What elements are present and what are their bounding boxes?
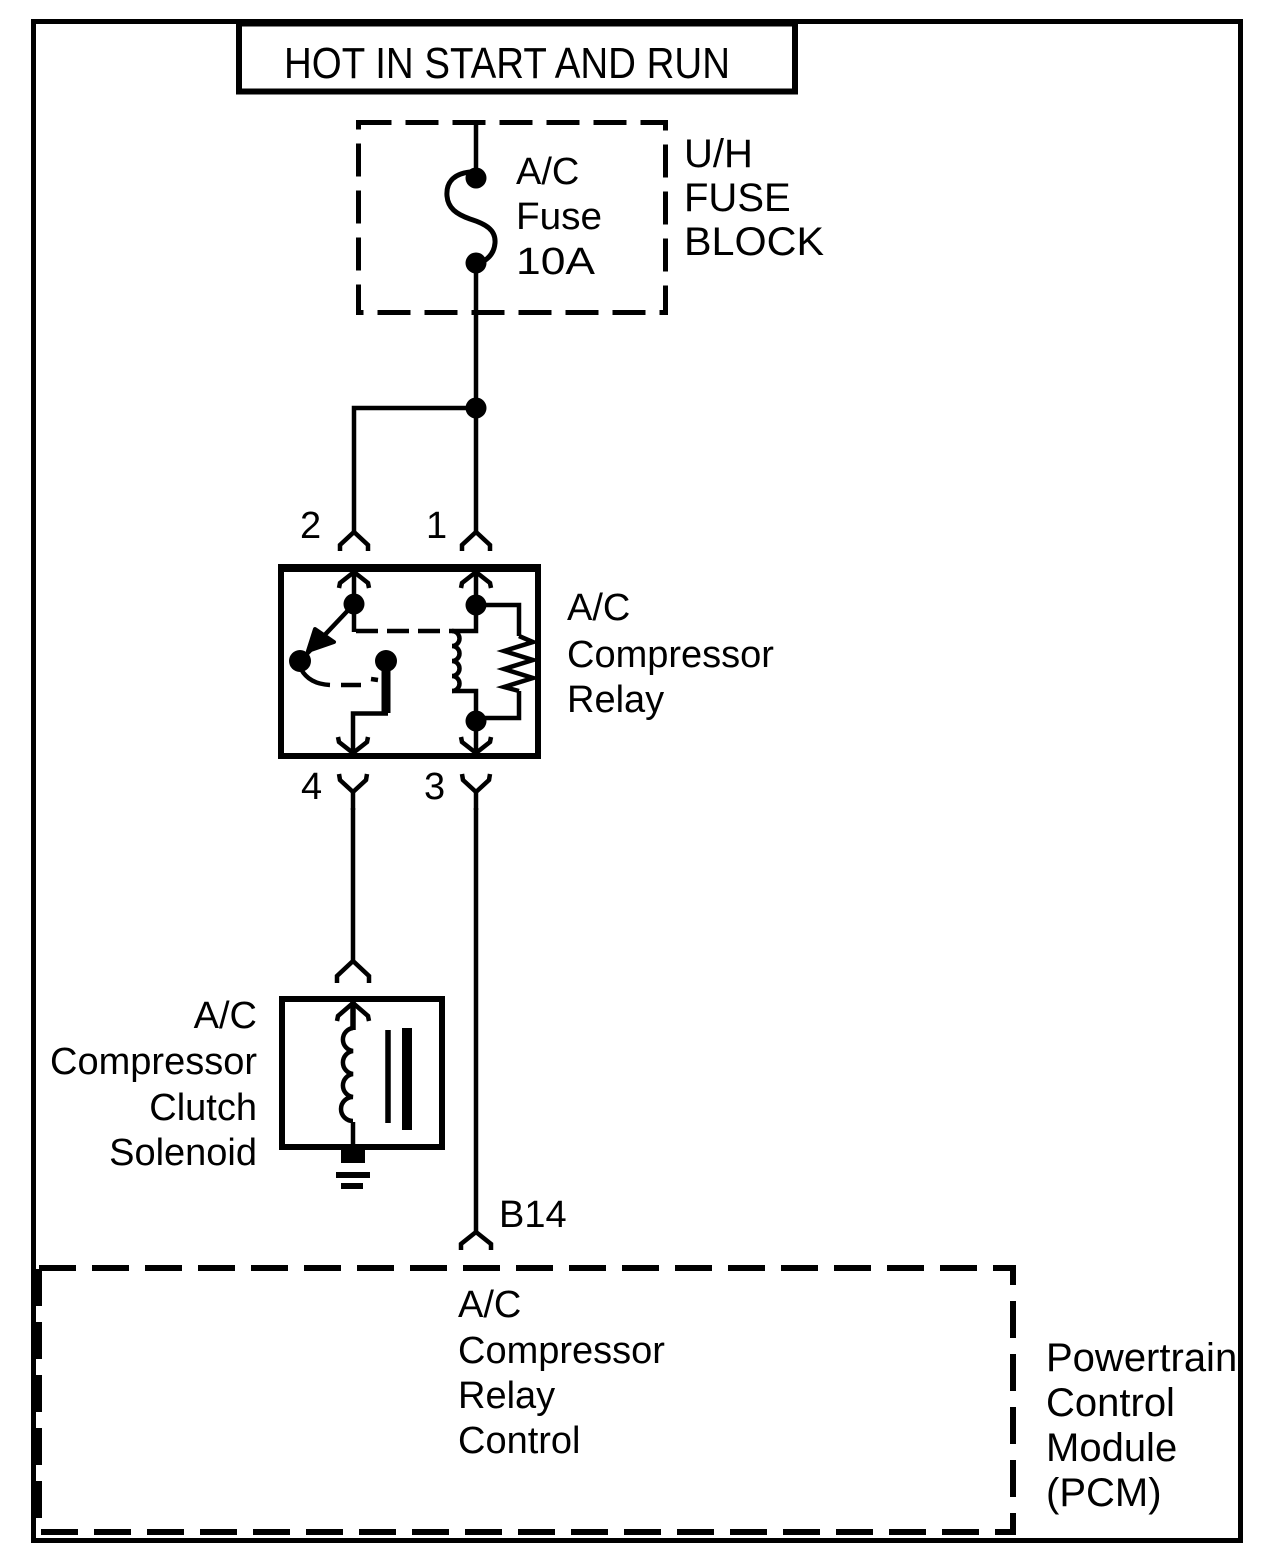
svg-text:Control: Control [458, 1420, 581, 1462]
wire: pin 4 down to solenoid connector [351, 808, 356, 960]
relay coil resistor (parallel) [484, 605, 533, 718]
svg-text:Compressor: Compressor [458, 1330, 665, 1372]
pin label 2 [300, 505, 321, 547]
U/H fuse block (dashed box) [359, 123, 666, 313]
clutch plates [388, 1028, 407, 1130]
connector pin 3 (female half, Y) [462, 774, 490, 810]
label U/H FUSE BLOCK [684, 132, 824, 264]
label Powertrain Control Module (PCM) [1046, 1336, 1237, 1515]
wire: NO contact to pin 4 [353, 714, 388, 754]
switch common node [344, 594, 365, 615]
power label box HOT IN START AND RUN [239, 24, 795, 92]
wire: branch to pin 2 [354, 408, 476, 531]
svg-text:Relay: Relay [458, 1375, 555, 1417]
relay coil node bottom [466, 711, 487, 732]
solenoid coil (inductor) [341, 1028, 353, 1147]
pin label 3 [424, 766, 445, 808]
svg-text:4: 4 [301, 766, 322, 808]
svg-text:Powertrain: Powertrain [1046, 1336, 1237, 1380]
connector pin 4 (female half, Y) [339, 774, 367, 810]
label A/C Fuse 10A [516, 151, 602, 283]
svg-text:A/C: A/C [567, 587, 630, 629]
wire: feed into fuse [474, 122, 479, 170]
relay pin 1 terminal arrow (male half) [461, 572, 491, 588]
svg-text:Control: Control [1046, 1381, 1175, 1425]
relay coil node top [466, 595, 487, 616]
switch NC node [289, 650, 311, 672]
label B14 [499, 1194, 567, 1236]
relay coil (inductor) [452, 609, 476, 713]
svg-text:A/C: A/C [194, 995, 257, 1037]
svg-text:A/C: A/C [516, 151, 579, 193]
connector at solenoid (male half, up) [337, 961, 369, 983]
relay pin 4 terminal arrow (male half, down) [338, 737, 368, 753]
junction node [466, 398, 487, 419]
relay pin 2 terminal arrow (male half) [339, 572, 369, 588]
connector B14 (female half) [461, 1232, 491, 1250]
svg-text:Compressor: Compressor [50, 1041, 257, 1083]
svg-text:HOT IN START AND RUN: HOT IN START AND RUN [284, 39, 730, 88]
ground symbol [336, 1175, 370, 1186]
relay box [278, 568, 541, 757]
solenoid terminal arrow (male half) [337, 1003, 369, 1021]
svg-text:Clutch: Clutch [149, 1087, 257, 1129]
connector pin 2 (female half) [340, 532, 368, 551]
svg-text:10A: 10A [516, 241, 596, 283]
svg-text:1: 1 [426, 505, 447, 547]
svg-text:(PCM): (PCM) [1046, 1471, 1162, 1515]
switch arm with arrowhead [302, 604, 354, 659]
switch travel arc (dashed) [301, 669, 378, 685]
relay pin 1 wire [474, 571, 479, 596]
wire: fuse to junction [474, 273, 479, 408]
svg-text:U/H: U/H [684, 132, 753, 176]
A/C compressor clutch solenoid box [282, 999, 442, 1147]
NO contact stub (thick) [382, 665, 391, 713]
wire: pin 3 down to PCM [474, 808, 479, 1233]
label A/C Compressor Clutch Solenoid [50, 995, 257, 1174]
pin label 1 [426, 505, 447, 547]
relay pin 2 wire [352, 571, 357, 596]
svg-text:Relay: Relay [567, 679, 664, 721]
ground stub [341, 1147, 365, 1163]
pin label 4 [301, 766, 322, 808]
wire: to pin 1 [474, 408, 479, 531]
svg-text:BLOCK: BLOCK [684, 220, 824, 264]
svg-text:Compressor: Compressor [567, 634, 774, 676]
switch common stub [352, 610, 357, 632]
label A/C Compressor Relay [567, 587, 774, 721]
fuse A/C Fuse 10A [447, 168, 495, 274]
solenoid pin wire [350, 1002, 356, 1030]
svg-text:Module: Module [1046, 1426, 1177, 1470]
relay pin 3 terminal arrow (male half, down) [461, 737, 491, 753]
svg-text:FUSE: FUSE [684, 176, 791, 220]
svg-text:A/C: A/C [458, 1284, 521, 1326]
svg-text:3: 3 [424, 766, 445, 808]
PCM box (dashed) [39, 1268, 1013, 1532]
svg-text:Fuse: Fuse [516, 196, 602, 238]
mechanical link (dashed) [356, 629, 452, 634]
svg-text:Solenoid: Solenoid [109, 1132, 257, 1174]
connector pin 1 (female half) [462, 532, 490, 551]
switch NO node [375, 650, 397, 672]
relay pin 3 wire [474, 721, 479, 753]
label A/C Compressor Relay Control [458, 1284, 665, 1462]
svg-text:2: 2 [300, 505, 321, 547]
svg-text:B14: B14 [499, 1194, 567, 1236]
